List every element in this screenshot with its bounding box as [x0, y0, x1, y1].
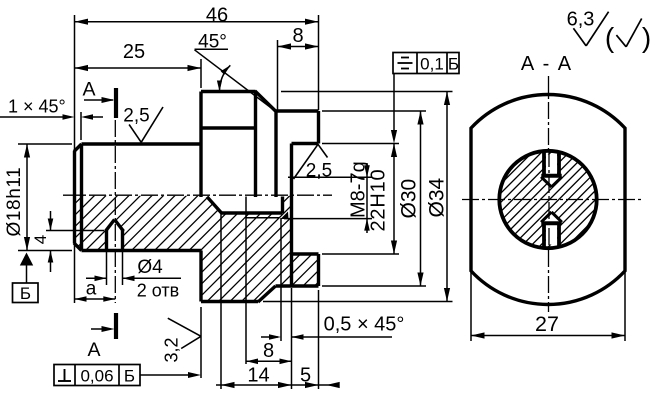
svg-text:8: 8	[292, 25, 303, 47]
svg-text:M8-7g: M8-7g	[348, 161, 370, 218]
svg-text:0,1: 0,1	[420, 55, 444, 74]
svg-text:46: 46	[206, 5, 228, 27]
svg-text:Ø30: Ø30	[398, 179, 421, 219]
svg-text:22H10: 22H10	[368, 169, 390, 232]
svg-text:1 × 45°: 1 × 45°	[8, 97, 66, 117]
svg-text:Ø34: Ø34	[426, 177, 449, 217]
svg-text:Ø4: Ø4	[137, 257, 163, 278]
svg-text:Б: Б	[448, 55, 459, 74]
svg-text:5: 5	[300, 365, 311, 387]
svg-text:25: 25	[123, 41, 145, 63]
svg-text:2,5: 2,5	[123, 106, 149, 127]
svg-text:(: (	[605, 22, 615, 53]
svg-text:2 отв: 2 отв	[137, 281, 179, 301]
svg-text:A: A	[87, 339, 100, 361]
svg-text:0,5 × 45°: 0,5 × 45°	[324, 314, 405, 336]
svg-text:Б: Б	[20, 284, 31, 303]
svg-text:): )	[642, 22, 651, 53]
svg-text:2,5: 2,5	[306, 161, 332, 182]
svg-text:Ø18h11: Ø18h11	[4, 167, 25, 237]
svg-text:14: 14	[247, 365, 269, 387]
svg-text:6,3: 6,3	[567, 9, 595, 31]
svg-text:A: A	[82, 79, 95, 101]
svg-text:a: a	[86, 279, 97, 300]
svg-text:0,06: 0,06	[80, 367, 113, 386]
svg-text:Б: Б	[124, 367, 135, 386]
svg-text:A - A: A - A	[521, 53, 573, 75]
svg-text:27: 27	[535, 312, 559, 336]
svg-text:3,2: 3,2	[162, 337, 182, 362]
svg-text:8: 8	[263, 340, 274, 362]
svg-text:4: 4	[31, 235, 50, 244]
